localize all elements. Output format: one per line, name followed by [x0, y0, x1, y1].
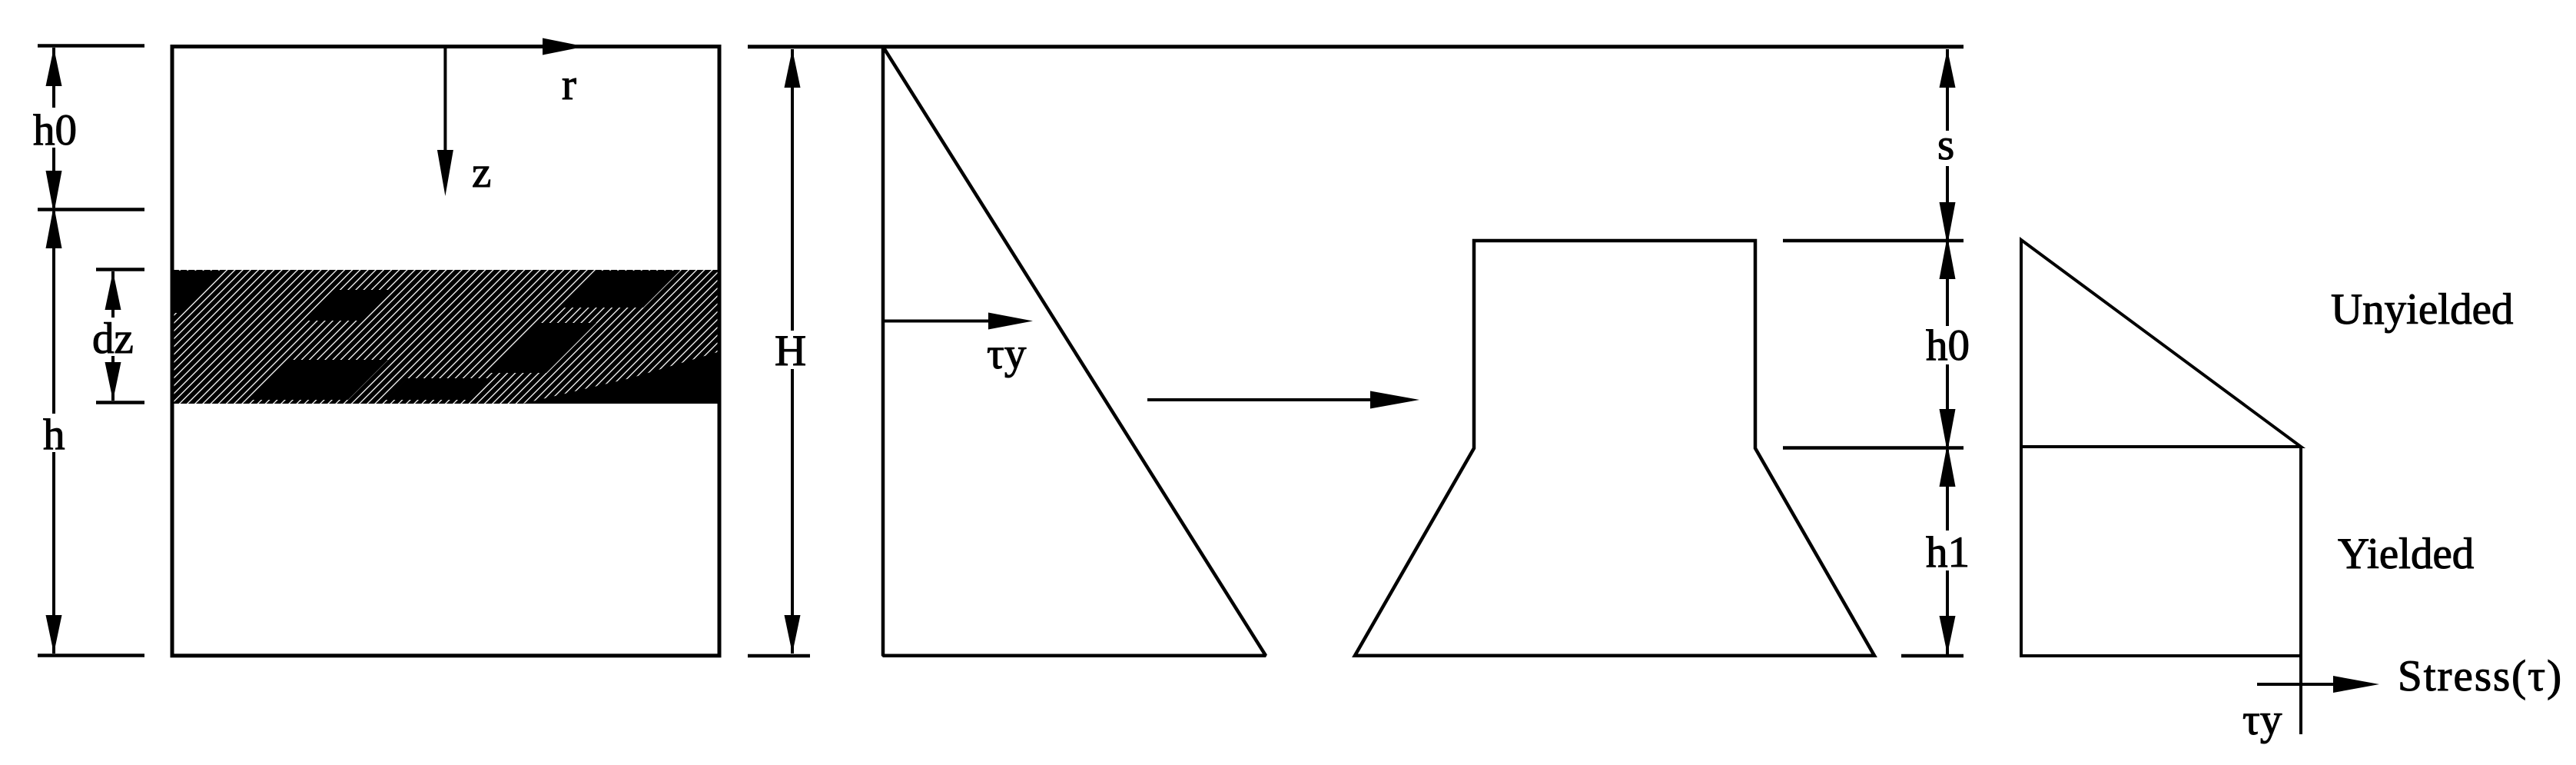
- h0 right arrow up: [1940, 236, 1956, 279]
- s dimension line: [1946, 49, 1949, 239]
- yielded stress rectangle bottom edge: [2020, 654, 2300, 657]
- svg-text:h0: h0: [1926, 321, 1970, 370]
- dz arrow up: [105, 271, 121, 310]
- transformation arrowhead: [1370, 391, 1419, 409]
- z axis arrowhead: [437, 150, 453, 196]
- solid patch lower-center band: [252, 360, 388, 400]
- yielded stress rectangle left edge: [2020, 447, 2023, 656]
- stress axis vertical line: [2299, 447, 2302, 734]
- stress axis arrow shaft: [2257, 683, 2336, 686]
- svg-text:Yielded: Yielded: [2338, 530, 2474, 578]
- h label: [37, 411, 71, 459]
- h0 dimension top tick: [38, 44, 144, 48]
- s tick at cap top: [1783, 239, 1964, 243]
- h0 right arrow down: [1940, 409, 1956, 452]
- svg-text:dz: dz: [92, 314, 134, 363]
- h1 arrow up: [1940, 444, 1956, 487]
- solid patch mid band: [488, 323, 596, 373]
- svg-text:h0: h0: [33, 106, 77, 155]
- svg-text:r: r: [562, 61, 576, 109]
- cylinder cross-section outline: [172, 47, 719, 656]
- svg-text:h1: h1: [1926, 528, 1970, 577]
- h0 right label: [1921, 321, 1975, 370]
- h0 label: [29, 106, 80, 155]
- h0 dimension line: [52, 48, 55, 208]
- h bottom tick: [38, 654, 144, 657]
- dz label: [89, 314, 138, 363]
- tau_y arrow shaft: [885, 320, 993, 323]
- H dimension line: [791, 49, 794, 654]
- unyielded stress triangle: [2021, 240, 2301, 447]
- svg-text:Unyielded: Unyielded: [2331, 285, 2513, 334]
- s arrow up: [1940, 49, 1956, 88]
- svg-text:h: h: [43, 411, 65, 459]
- h0 arrow down: [46, 171, 62, 214]
- dz bottom tick: [96, 401, 144, 404]
- h dimension line: [52, 211, 55, 654]
- H label: [768, 327, 816, 375]
- h1 bottom tick: [1901, 654, 1964, 658]
- h arrow up: [46, 205, 62, 248]
- solid patch top-right band: [563, 271, 680, 308]
- hatched disc element dz band: [174, 270, 718, 404]
- svg-text:z: z: [472, 148, 491, 197]
- top reference line: [748, 45, 1964, 48]
- h0/h shared tick: [38, 208, 144, 211]
- h1 dimension line: [1946, 450, 1949, 654]
- stress axis arrowhead: [2333, 676, 2379, 693]
- H bottom tick: [748, 654, 810, 658]
- h1 arrow down: [1940, 616, 1956, 654]
- svg-text:Stress(τ): Stress(τ): [2398, 652, 2563, 700]
- solid patch lower-mid band: [386, 378, 492, 400]
- dz top tick: [96, 268, 144, 271]
- solid patch top-left band: [174, 271, 225, 313]
- h0 arrow up: [46, 48, 62, 86]
- dz arrow down: [105, 362, 121, 401]
- solid patch bottom-right of band: [523, 352, 718, 404]
- z axis line: [443, 48, 446, 155]
- r axis arrowhead: [543, 38, 585, 55]
- h0 right dimension line: [1946, 242, 1949, 446]
- h0/h1 tick at kink: [1783, 446, 1964, 450]
- h arrow down: [46, 615, 62, 654]
- initial stress triangle: [883, 47, 1266, 656]
- svg-text:τy: τy: [987, 330, 1027, 378]
- s label: [1929, 121, 1966, 169]
- H arrow up: [785, 49, 801, 88]
- tau_y arrowhead: [988, 313, 1033, 330]
- s arrow down: [1940, 202, 1956, 245]
- slumped body outline: [1355, 241, 1874, 656]
- transformation arrow shaft: [1147, 398, 1374, 401]
- svg-text:s: s: [1937, 121, 1954, 169]
- solid patch center-left band: [307, 290, 393, 321]
- svg-text:τy: τy: [2242, 696, 2282, 744]
- svg-text:H: H: [775, 327, 806, 375]
- dz dimension line: [111, 271, 115, 401]
- h1 label: [1921, 528, 1975, 577]
- H arrow down: [785, 615, 801, 654]
